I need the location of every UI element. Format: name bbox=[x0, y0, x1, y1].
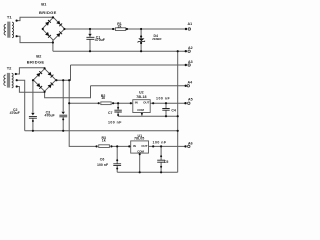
terminal circles A1-A6 bbox=[187, 28, 190, 148]
wire D4 leads bbox=[140, 29, 142, 51]
node U2 IN pin bbox=[130, 102, 132, 104]
wire B1 bottom vertex riser to A2 rail bbox=[52, 40, 54, 51]
junction R2 corner bbox=[68, 102, 70, 104]
wire 0V common to bus bbox=[25, 130, 178, 132]
node B2 vertices bbox=[44, 67, 46, 69]
wire B2 bottom vertex to A4 rail riser bbox=[45, 86, 91, 98]
node C7 pins bbox=[117, 107, 119, 109]
diode B1 bottom-right bbox=[56, 33, 60, 37]
svg-text:U2: U2 bbox=[139, 91, 144, 95]
wire B2 right vertex to A3 riser bbox=[56, 65, 71, 80]
diode B2 top-right bbox=[48, 72, 52, 76]
junction U1 COM to bottom rail bbox=[139, 171, 141, 173]
svg-text:A6: A6 bbox=[188, 142, 193, 146]
node U2 COM pin bbox=[141, 113, 143, 115]
svg-text:470uF: 470uF bbox=[10, 111, 21, 115]
wire COM rail U2 bbox=[118, 115, 178, 117]
capacitor C4 bbox=[162, 109, 169, 111]
svg-text:78L18: 78L18 bbox=[136, 95, 146, 99]
junction C6 top bbox=[116, 145, 118, 147]
svg-text:2k: 2k bbox=[118, 25, 122, 29]
terminal dots A1-A6 bbox=[185, 28, 187, 30]
junction C4 top and bottom bbox=[165, 102, 167, 104]
node U1 IN pin bbox=[128, 145, 130, 147]
svg-text:100 nF: 100 nF bbox=[108, 121, 122, 125]
junction T1 bottom wire bbox=[52, 41, 54, 43]
svg-text:100 nF: 100 nF bbox=[97, 163, 109, 167]
resistor R3 bbox=[99, 145, 110, 148]
labels bbox=[7, 2, 57, 71]
junction C3 branch bbox=[62, 79, 64, 81]
svg-text:A2: A2 bbox=[188, 46, 193, 50]
capacitor C2 bbox=[29, 113, 37, 118]
diode B1 top-right bbox=[56, 21, 60, 25]
transformer T2 bbox=[4, 73, 13, 88]
node T2 pins bbox=[15, 73, 17, 75]
node C6 pins bbox=[116, 159, 118, 161]
junction C2 to 0V wire bbox=[32, 130, 34, 132]
svg-text:A1: A1 bbox=[188, 22, 193, 26]
node T1 pins bbox=[16, 20, 18, 22]
bridge rectifier B1 bbox=[42, 17, 64, 40]
junction C5 bottom bbox=[160, 171, 162, 173]
junction 0V wire to bus bbox=[177, 130, 179, 132]
wire T2 bottom secondary to B2 bottom vertex bbox=[17, 87, 45, 93]
node C2 bottom pin bbox=[32, 120, 34, 122]
wire C2 top lead from B2 left vertex bbox=[32, 80, 34, 112]
wire A3 rail bbox=[71, 64, 187, 66]
svg-text:C4: C4 bbox=[171, 109, 176, 113]
wire T2 top secondary to B2 top vertex bbox=[16, 68, 45, 74]
svg-text:A4: A4 bbox=[188, 81, 193, 85]
resistor R2 bbox=[101, 102, 111, 105]
svg-text:BRIDGE: BRIDGE bbox=[39, 10, 57, 15]
diode B2 left-top bbox=[36, 73, 40, 77]
svg-text:COM: COM bbox=[137, 108, 144, 112]
junction C3 to 0V wire bbox=[62, 130, 64, 132]
svg-text:1k: 1k bbox=[102, 139, 106, 143]
node R2 pins bbox=[98, 102, 100, 104]
bridge rectifier B2 bbox=[33, 69, 56, 92]
junction A2 bus top bbox=[177, 50, 179, 52]
resistor R1 bbox=[115, 28, 125, 31]
junction C7 top bbox=[117, 102, 119, 104]
node U1 COM pin bbox=[139, 153, 141, 155]
wire A4 rail bbox=[91, 85, 187, 87]
capacitor C6 bbox=[113, 164, 121, 166]
svg-text:1k: 1k bbox=[101, 96, 105, 100]
wire A1 rail bbox=[65, 28, 186, 30]
node C3 bottom pin bbox=[62, 118, 64, 120]
wire A2 rail bbox=[53, 50, 186, 52]
wire bottom COM rail U1 bbox=[117, 171, 178, 173]
svg-text:470uF: 470uF bbox=[45, 113, 56, 117]
wire U1 COM riser bbox=[139, 153, 141, 172]
wire C3 top lead bbox=[62, 80, 64, 111]
wire C1 leads bbox=[89, 29, 91, 51]
wire branch down to R3 and U1 input bbox=[69, 103, 131, 146]
svg-text:COM: COM bbox=[137, 149, 144, 153]
svg-text:T1: T1 bbox=[7, 15, 12, 20]
wire C4 leads bbox=[165, 103, 167, 116]
node U1 OUT pin bbox=[152, 145, 154, 147]
capacitor C1 bbox=[86, 34, 94, 39]
node B1 vertices bbox=[52, 16, 54, 18]
node U2 OUT pin bbox=[152, 102, 154, 104]
wire C5 leads bbox=[160, 146, 162, 172]
wire C3 bottom lead bbox=[62, 117, 64, 131]
wire vertical 0V bus bbox=[177, 51, 179, 172]
svg-text:IN: IN bbox=[133, 144, 136, 148]
node C5 pins bbox=[160, 155, 162, 157]
svg-text:C6: C6 bbox=[100, 157, 105, 161]
node R1 pins bbox=[112, 28, 114, 30]
svg-text:C7: C7 bbox=[108, 111, 113, 115]
svg-text:OUT: OUT bbox=[143, 101, 149, 105]
regulator U1 box bbox=[131, 141, 149, 153]
junction R2 branch bbox=[68, 79, 70, 81]
svg-text:78L05: 78L05 bbox=[134, 137, 144, 141]
regulator U2 box bbox=[133, 100, 150, 113]
diode B2 bottom-right bbox=[48, 84, 52, 88]
wire U1 output to A6 bbox=[149, 145, 187, 147]
svg-text:A5: A5 bbox=[188, 98, 193, 102]
wire T1 top secondary to B1 top vertex bbox=[17, 17, 54, 20]
wire C7 leads bbox=[117, 103, 119, 116]
svg-text:B2: B2 bbox=[36, 54, 42, 59]
node R3 pins bbox=[96, 145, 98, 147]
wire T1 bottom secondary to B1 bottom riser bbox=[17, 36, 53, 42]
svg-text:ZENER: ZENER bbox=[152, 37, 161, 41]
junction D4 top, pins, bottom bbox=[140, 28, 142, 30]
svg-text:470uF: 470uF bbox=[95, 38, 106, 42]
wire U2 COM riser bbox=[141, 113, 143, 117]
svg-text:BRIDGE: BRIDGE bbox=[27, 59, 45, 64]
capacitor C3 bbox=[59, 112, 67, 117]
svg-text:100 nF: 100 nF bbox=[156, 97, 170, 101]
diode B2 left-bottom bbox=[36, 83, 40, 87]
wire T2 center tap down bbox=[17, 80, 25, 131]
svg-text:C5: C5 bbox=[164, 160, 169, 164]
junction C5 top bbox=[160, 145, 162, 147]
wire C6 leads bbox=[116, 146, 118, 172]
wire branch to R2 and U2 input bbox=[69, 80, 133, 103]
svg-text:B1: B1 bbox=[41, 2, 47, 7]
diode B1 left-top bbox=[45, 22, 49, 26]
junction C1 top and bottom bbox=[89, 28, 91, 30]
diode B1 left-bottom bbox=[45, 32, 49, 36]
svg-text:100 nF: 100 nF bbox=[153, 140, 167, 144]
svg-text:OUT: OUT bbox=[141, 144, 147, 148]
capacitor C7 bbox=[114, 110, 121, 112]
svg-text:T2: T2 bbox=[7, 65, 12, 70]
svg-text:IN: IN bbox=[135, 101, 138, 105]
svg-text:A3: A3 bbox=[188, 60, 193, 64]
zener diode D4 bbox=[138, 38, 145, 42]
capacitor C5 bbox=[157, 160, 165, 162]
transformer T1 bbox=[4, 22, 13, 38]
wire U2 output to A5 bbox=[150, 102, 186, 104]
wire C2 bottom lead bbox=[32, 118, 34, 131]
junction COM rail to bus bbox=[177, 115, 179, 117]
